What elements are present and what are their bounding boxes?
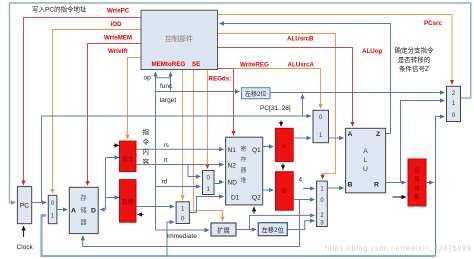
wire REGdst select (207, 70, 209, 169)
svg-text:Q1: Q1 (252, 147, 261, 154)
svg-text:左移2位: 左移2位 (245, 90, 267, 98)
register IR (red) (120, 141, 137, 171)
svg-text:器: 器 (240, 167, 246, 174)
wire WrtePC (24, 18, 142, 186)
mux PCsrc (447, 86, 461, 121)
ALU (346, 128, 386, 193)
wire MEMtoREG select (182, 70, 184, 200)
svg-text:写入PC的指令地址: 写入PC的指令地址 (32, 5, 87, 14)
svg-text:ALUsrcA: ALUsrcA (288, 62, 315, 69)
svg-text:WrtePC: WrtePC (107, 8, 130, 15)
svg-text:确定分支指令: 确定分支指令 (395, 46, 435, 55)
svg-text:ALUop: ALUop (362, 48, 382, 55)
shifter 左移2位 (jump) (242, 88, 271, 99)
wire SE select (194, 70, 223, 222)
wire R to PCsrc input1 (401, 101, 445, 183)
svg-text:ALUsrcB: ALUsrcB (287, 36, 314, 43)
label 指令内容 vertical (143, 127, 150, 166)
wire rs to N1 (136, 148, 224, 150)
svg-text:ND: ND (228, 180, 238, 187)
svg-text:堆: 堆 (240, 177, 246, 185)
wire ALUout out (426, 182, 434, 184)
register A (red) (276, 128, 294, 161)
wire rd to RegDst mux input1 (156, 186, 201, 188)
wire memory D bus (100, 158, 119, 210)
wire WrteMEM (88, 44, 142, 186)
wire PC input loop (new PC address) (10, 3, 471, 203)
register MDR (red) (120, 180, 137, 223)
wire RegDst out to ND (214, 182, 224, 184)
wire func tap (156, 72, 171, 92)
register file 寄存器堆 (226, 137, 263, 205)
wire jump concat to PCsrc mux input2 (270, 92, 445, 94)
svg-text:数据: 数据 (122, 198, 134, 206)
svg-text:WriteREG: WriteREG (240, 62, 269, 69)
wire R out to ALUout (386, 182, 406, 184)
wire immediate (156, 229, 210, 231)
wire PC out to IOD mux (32, 202, 47, 204)
svg-text:Immediate: Immediate (167, 233, 198, 240)
A write stub (280, 121, 282, 127)
svg-text:存: 存 (240, 156, 246, 164)
wire func/target to shift-left-2 (156, 91, 240, 93)
svg-text:指: 指 (143, 127, 150, 136)
extender 扩展 (211, 223, 236, 236)
wire WrteIR (128, 58, 142, 140)
shifter 左移2位 (branch) (258, 223, 287, 236)
svg-text:指令: 指令 (122, 155, 134, 163)
svg-text:IOD: IOD (111, 21, 123, 28)
svg-text:Q2: Q2 (252, 195, 261, 202)
svg-text:U: U (363, 166, 368, 173)
svg-text:储: 储 (80, 205, 87, 214)
wire B to memory data bus (83, 200, 300, 247)
svg-text:条件信号Z: 条件信号Z (399, 64, 429, 73)
svg-text:4: 4 (299, 177, 303, 184)
wire Z condition (220, 24, 391, 134)
svg-text:果: 果 (414, 194, 420, 201)
svg-text:Z: Z (376, 131, 380, 138)
memory 存储器 (69, 187, 98, 233)
svg-text:运: 运 (414, 166, 420, 174)
svg-text:REGds:: REGds: (209, 76, 232, 83)
svg-text:D: D (91, 208, 96, 215)
svg-text:左移2位: 左移2位 (261, 225, 284, 234)
mux RegDst (203, 171, 215, 195)
wire op riser (155, 72, 157, 230)
svg-text:Clock: Clock (17, 244, 34, 251)
wire MEMtoREG out to D1 (189, 197, 223, 213)
svg-text:WrteMEM: WrteMEM (104, 35, 132, 42)
svg-text:扩展: 扩展 (217, 225, 230, 234)
wire SrcA out to ALU A (329, 137, 344, 139)
svg-text:MEMtoREG: MEMtoREG (152, 61, 186, 68)
svg-text:WrteIR: WrteIR (108, 48, 128, 55)
wire SrcB out to ALU B (327, 187, 343, 189)
wire extend to SrcB mux input2 (250, 215, 315, 229)
wire WriteREG / ALUsrcA shared run (218, 68, 321, 70)
svg-text:B: B (282, 189, 286, 195)
svg-text:A: A (282, 144, 286, 150)
svg-text:B: B (348, 182, 353, 189)
svg-text:rs: rs (164, 142, 170, 149)
mux MEMtoREG (176, 202, 189, 224)
wire rt to N2 (136, 164, 224, 166)
clock arrow (23, 226, 25, 237)
wire PC[31..28] riser to jump line (302, 94, 304, 116)
svg-text:https://blog.csdn.net/weixin_4: https://blog.csdn.net/weixin_42875099 (325, 244, 471, 253)
wire rt tap to RegDst mux input0 (188, 165, 201, 177)
wire IOD mux out to memory A (57, 209, 67, 211)
wire Q2 to B reg (263, 189, 274, 191)
svg-text:rt: rt (164, 157, 168, 164)
wire ALUsrcB select (218, 34, 336, 180)
mux IOD (48, 195, 57, 223)
svg-text:PC: PC (20, 203, 30, 210)
svg-text:存: 存 (80, 193, 87, 202)
svg-text:寄: 寄 (240, 145, 246, 153)
wire MDR to MEMtoREG mux input1 (136, 206, 174, 208)
ALUout write stub (393, 196, 407, 198)
register ALUout (red) (408, 159, 426, 206)
wire shift2 to SrcB mux input3 (287, 221, 314, 230)
svg-text:target: target (160, 97, 177, 104)
svg-text:func: func (160, 83, 173, 90)
wire PC[31..28] (42, 116, 312, 203)
wire address bus bottom (42, 216, 436, 257)
wire Q1 to A reg (263, 146, 274, 148)
svg-text:A: A (71, 208, 76, 215)
B write stub (282, 164, 284, 170)
register PC (17, 187, 31, 224)
svg-text:A: A (348, 131, 353, 138)
mux ALUsrcB (317, 181, 328, 226)
wire B out to SrcB mux input0 (293, 199, 314, 201)
svg-text:是否转移的: 是否转移的 (398, 55, 431, 64)
IR write stub (114, 144, 120, 146)
constant 4 stub (303, 188, 315, 190)
svg-text:N2: N2 (228, 163, 237, 170)
svg-text:L: L (364, 157, 368, 164)
svg-text:op: op (144, 75, 152, 82)
svg-text:结: 结 (414, 184, 420, 192)
svg-text:D1: D1 (231, 195, 240, 202)
register B (red) (276, 172, 294, 211)
wire ALUsrcA drop (320, 69, 322, 109)
svg-text:rd: rd (162, 179, 168, 186)
svg-text:A: A (363, 148, 368, 155)
svg-text:PCsrc: PCsrc (424, 20, 442, 27)
MDR write stub (138, 214, 144, 216)
wire A out to SrcA mux input1 (293, 137, 311, 139)
svg-text:算: 算 (414, 175, 420, 183)
control unit (141, 10, 218, 69)
svg-text:内: 内 (143, 147, 150, 156)
svg-text:PC[31..28]: PC[31..28] (260, 105, 291, 112)
wire IOD (53, 30, 142, 194)
wire ALUop (218, 48, 353, 127)
svg-text:N1: N1 (228, 147, 237, 154)
wire bus to MEMtoREG mux input0 (167, 222, 174, 257)
svg-text:R: R (374, 182, 379, 189)
svg-text:令: 令 (143, 137, 150, 146)
wire extend out to shifter (236, 229, 256, 231)
wire WriteREG drop (234, 69, 255, 214)
svg-text:SE: SE (192, 61, 200, 68)
svg-text:控制部件: 控制部件 (165, 34, 193, 43)
wire PCsrc (217, 15, 453, 85)
wire ALUout to PCsrc input0 and to address bus (436, 117, 445, 257)
mux ALUsrcA (313, 110, 329, 142)
svg-text:器: 器 (80, 218, 87, 226)
